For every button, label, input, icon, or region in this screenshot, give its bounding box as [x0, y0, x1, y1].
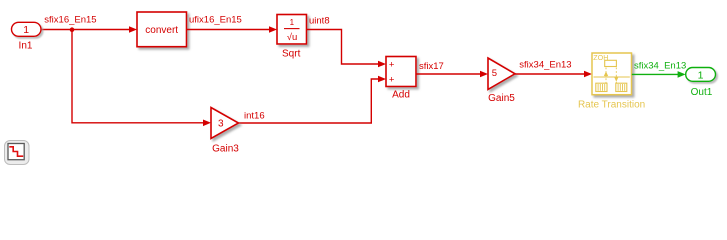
arrowhead at Add second input [378, 76, 386, 83]
wire Sqrt to Add first input [307, 30, 379, 65]
svg-text:5: 5 [492, 68, 497, 79]
wire In1 to convert [42, 29, 131, 31]
svg-text:sfix34_En13: sfix34_En13 [634, 61, 686, 72]
svg-text:√u: √u [287, 32, 298, 43]
wire Add to Gain5 [416, 73, 480, 75]
svg-text:int16: int16 [244, 110, 265, 121]
block Rate Transition [578, 53, 645, 111]
block Gain5 (gain triangle) [488, 58, 515, 104]
wire Rate Transition to Out1 [632, 73, 678, 75]
arrowhead at convert input [129, 26, 137, 33]
svg-text:sfix17: sfix17 [419, 61, 444, 72]
arrowhead at Out1 input [678, 71, 686, 78]
wire Gain5 to Rate Transition [515, 73, 584, 75]
block Sqrt (1/sqrt(u)) [277, 15, 307, 60]
block Gain3 (gain triangle) [211, 108, 239, 155]
sample-time legend button (bottom-left) [5, 141, 30, 165]
svg-text:Add: Add [392, 90, 410, 101]
svg-text:1: 1 [290, 18, 295, 27]
junction node on wire [70, 27, 75, 32]
svg-text:convert: convert [145, 25, 178, 36]
svg-text:1: 1 [698, 69, 704, 81]
block Add (sum) [386, 57, 416, 101]
svg-text:uint8: uint8 [309, 15, 330, 26]
svg-text:+: + [389, 59, 395, 70]
wire branch down to Gain3 [72, 30, 204, 123]
svg-text:Sqrt: Sqrt [282, 48, 301, 59]
input port In1 [12, 22, 42, 51]
svg-text:In1: In1 [19, 41, 33, 52]
block convert (Data Type Conversion) [137, 12, 187, 47]
arrowhead at Gain5 input [480, 71, 488, 78]
arrowhead at Sqrt input [269, 26, 277, 33]
arrowhead at Gain3 input [203, 120, 211, 127]
output port Out1 [686, 68, 716, 98]
svg-text:3: 3 [218, 118, 224, 129]
svg-text:Rate Transition: Rate Transition [578, 100, 645, 111]
svg-text:Gain5: Gain5 [488, 93, 515, 104]
arrowhead at Add first input [378, 61, 386, 68]
svg-text:Out1: Out1 [691, 87, 713, 98]
svg-text:Gain3: Gain3 [212, 144, 239, 155]
svg-text:ufix16_En15: ufix16_En15 [189, 14, 242, 25]
svg-text:sfix16_En15: sfix16_En15 [44, 14, 96, 25]
svg-text:1: 1 [23, 24, 29, 36]
wire Gain3 to Add second input [239, 79, 379, 123]
svg-text:+: + [389, 74, 395, 85]
svg-text:sfix34_En13: sfix34_En13 [519, 60, 571, 71]
wire convert to Sqrt [187, 29, 271, 31]
arrowhead at Rate Transition input [584, 71, 592, 78]
